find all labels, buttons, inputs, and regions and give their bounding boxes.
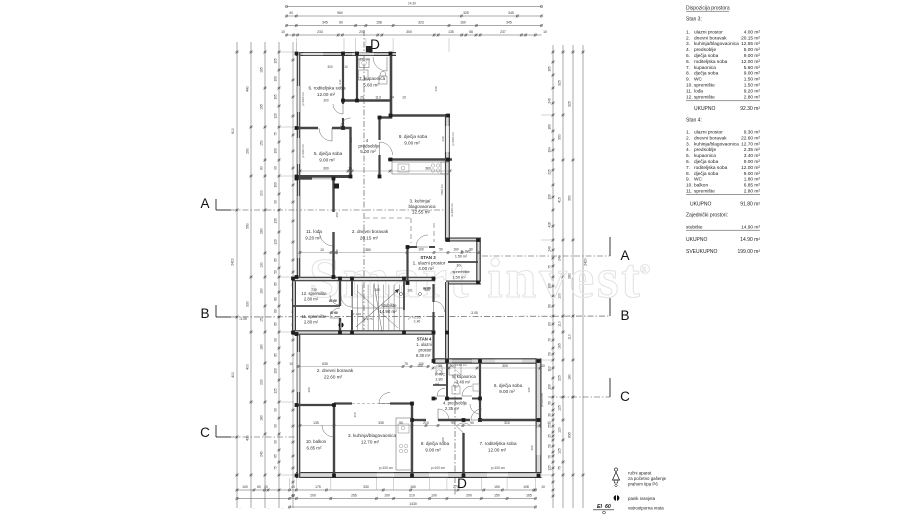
svg-text:1. ulazni: 1. ulazni bbox=[416, 342, 432, 347]
svg-text:310: 310 bbox=[504, 421, 510, 425]
svg-text:8.: 8. bbox=[686, 171, 690, 177]
wall stair left x352 bbox=[351, 279, 353, 296]
svg-text:120: 120 bbox=[274, 113, 278, 119]
svg-text:30: 30 bbox=[438, 364, 442, 368]
svg-text:165: 165 bbox=[548, 66, 552, 72]
svg-text:2. dnevni boravak: 2. dnevni boravak bbox=[317, 368, 354, 373]
svg-text:kuhinja/blagovaonica: kuhinja/blagovaonica bbox=[694, 141, 739, 147]
wall entry block top bbox=[446, 238, 481, 242]
svg-text:spremište: spremište bbox=[452, 269, 470, 274]
section line D vertical upper bbox=[363, 52, 365, 330]
wall WC bottom bbox=[433, 384, 447, 386]
svg-text:610: 610 bbox=[338, 79, 342, 84]
svg-text:12.55 m²: 12.55 m² bbox=[412, 210, 431, 215]
svg-text:75: 75 bbox=[404, 362, 408, 366]
svg-text:± 1.40: ± 1.40 bbox=[353, 312, 362, 316]
svg-text:100: 100 bbox=[417, 364, 423, 368]
svg-text:1.50 m²: 1.50 m² bbox=[744, 83, 761, 89]
wall lodja top bbox=[296, 177, 312, 179]
svg-text:2.80 m²: 2.80 m² bbox=[744, 94, 761, 100]
window left wall dnevni boravak lower bbox=[297, 352, 299, 392]
svg-text:1.50 m²: 1.50 m² bbox=[455, 255, 468, 259]
svg-text:440: 440 bbox=[434, 86, 438, 91]
svg-text:dnevni boravak: dnevni boravak bbox=[694, 135, 727, 141]
wall spremiste row top y277 bbox=[292, 277, 435, 282]
svg-text:2.80 m²: 2.80 m² bbox=[304, 297, 319, 302]
svg-text:10: 10 bbox=[281, 30, 285, 34]
svg-text:2420: 2420 bbox=[231, 258, 235, 266]
door arc Stan 4 predsoblje to kupaonica bbox=[462, 386, 472, 396]
svg-text:9. WC: 9. WC bbox=[435, 373, 446, 377]
svg-text:100: 100 bbox=[548, 194, 552, 200]
svg-text:9.00 m²: 9.00 m² bbox=[744, 53, 761, 59]
svg-text:9.00 m²: 9.00 m² bbox=[404, 141, 420, 146]
svg-text:R: R bbox=[642, 266, 647, 274]
legend Stan 3 underline bbox=[686, 100, 760, 102]
svg-text:p=100 cm: p=100 cm bbox=[431, 466, 445, 470]
kupaonica Stan 4 sink bbox=[473, 384, 480, 391]
fridge Stan 3 bbox=[441, 162, 449, 174]
svg-text:4.: 4. bbox=[686, 47, 690, 53]
section line A inside bbox=[296, 209, 448, 211]
WC toilet Stan 4 bbox=[436, 366, 442, 374]
svg-text:4. predsoblje: 4. predsoblje bbox=[443, 401, 468, 406]
dimension chain right vertical lines bbox=[552, 45, 554, 508]
svg-text:5. dječja soba: 5. dječja soba bbox=[314, 151, 343, 156]
door arc corridor B bbox=[434, 301, 445, 312]
svg-text:90: 90 bbox=[274, 408, 278, 412]
svg-text:418: 418 bbox=[548, 222, 552, 228]
svg-text:2.: 2. bbox=[686, 135, 690, 141]
svg-text:60: 60 bbox=[257, 485, 261, 489]
svg-text:vatrootporna vrata: vatrootporna vrata bbox=[628, 506, 664, 511]
svg-text:11. spremište: 11. spremište bbox=[302, 314, 327, 319]
svg-text:180: 180 bbox=[260, 415, 264, 421]
door opening rooms 6-5 wall bbox=[318, 126, 332, 129]
svg-text:90: 90 bbox=[274, 440, 278, 444]
svg-text:10.: 10. bbox=[456, 264, 461, 268]
svg-text:-3.05: -3.05 bbox=[470, 311, 478, 315]
svg-text:265: 265 bbox=[351, 494, 357, 498]
svg-text:9.20 m²: 9.20 m² bbox=[305, 236, 321, 241]
svg-text:240: 240 bbox=[548, 98, 552, 104]
svg-text:345: 345 bbox=[508, 11, 514, 15]
svg-text:ulazni prostor: ulazni prostor bbox=[694, 29, 723, 35]
svg-text:2.: 2. bbox=[686, 35, 690, 41]
toilet kupaonica Stan 3 bbox=[379, 76, 387, 84]
svg-text:EI 60: EI 60 bbox=[329, 299, 337, 303]
svg-text:3.: 3. bbox=[686, 41, 690, 47]
svg-text:24: 24 bbox=[390, 96, 394, 100]
svg-text:-3.05: -3.05 bbox=[239, 317, 247, 321]
wall kitchen right x412 lower bbox=[411, 403, 413, 477]
section line A left bbox=[231, 209, 296, 211]
svg-text:12.00 m²: 12.00 m² bbox=[741, 165, 760, 171]
dashed line entry boundary bbox=[433, 223, 435, 242]
wall spremiste row left bbox=[292, 277, 296, 334]
svg-text:1.: 1. bbox=[686, 29, 690, 35]
svg-text:EI: EI bbox=[597, 504, 602, 510]
svg-text:40: 40 bbox=[289, 11, 293, 15]
svg-text:14.30: 14.30 bbox=[408, 2, 416, 6]
staircase second diagonal bbox=[357, 291, 398, 328]
svg-text:165: 165 bbox=[526, 494, 532, 498]
dimension chain top row total bbox=[287, 6, 542, 8]
wall right of room 8 / kitchen (outer) bbox=[445, 114, 450, 242]
svg-text:1.: 1. bbox=[686, 130, 690, 136]
wall lodja right x333.5 bbox=[332, 178, 334, 212]
svg-text:113: 113 bbox=[375, 96, 381, 100]
svg-text:100: 100 bbox=[424, 288, 430, 292]
svg-text:6.: 6. bbox=[686, 159, 690, 165]
svg-text:+2.05: +2.05 bbox=[412, 316, 421, 320]
svg-text:12.00 m²: 12.00 m² bbox=[317, 92, 336, 97]
window kupaonica top inner bbox=[359, 52, 369, 54]
svg-text:345: 345 bbox=[506, 21, 512, 25]
wall column blobs bbox=[295, 52, 299, 56]
svg-text:1=2.75: 1=2.75 bbox=[363, 317, 373, 321]
svg-text:8.: 8. bbox=[686, 71, 690, 77]
svg-text:60: 60 bbox=[274, 309, 278, 313]
window left wall roditeljska soba bbox=[297, 86, 299, 112]
svg-text:22.60 m²: 22.60 m² bbox=[324, 375, 343, 380]
svg-text:kupaonica: kupaonica bbox=[694, 153, 716, 159]
svg-text:dječja soba: dječja soba bbox=[694, 159, 719, 165]
extension lines from top wall to top chain bbox=[295, 38, 297, 52]
svg-text:180: 180 bbox=[335, 249, 339, 254]
svg-text:WC: WC bbox=[694, 177, 703, 183]
svg-text:300: 300 bbox=[502, 364, 508, 368]
svg-text:130: 130 bbox=[260, 262, 264, 268]
svg-text:6. dječja soba: 6. dječja soba bbox=[494, 383, 523, 388]
wall kupaonica lower right x480 bbox=[479, 362, 481, 420]
svg-text:6.85 m²: 6.85 m² bbox=[307, 446, 322, 451]
svg-text:-1.40: -1.40 bbox=[413, 320, 420, 324]
left chain connectors to wall bbox=[279, 51, 294, 53]
svg-text:150: 150 bbox=[260, 140, 264, 146]
svg-text:A: A bbox=[200, 196, 209, 211]
svg-text:B: B bbox=[200, 306, 209, 321]
svg-text:10: 10 bbox=[547, 421, 551, 425]
svg-text:233: 233 bbox=[317, 30, 323, 34]
wall predsoblje top y398 lower bbox=[433, 398, 437, 400]
wall entry block bottom bbox=[446, 281, 481, 285]
svg-text:3.40 m²: 3.40 m² bbox=[456, 380, 471, 385]
svg-text:4.00 m²: 4.00 m² bbox=[418, 266, 434, 271]
window right wall room 8 p=100 bbox=[446, 126, 449, 152]
svg-text:75: 75 bbox=[274, 132, 278, 136]
svg-text:125: 125 bbox=[558, 448, 562, 454]
svg-text:7.: 7. bbox=[686, 165, 690, 171]
dimension chain top row 3 bbox=[287, 25, 542, 27]
window bottom room 7 p=100 bbox=[487, 473, 508, 477]
wall outer bottom bbox=[296, 472, 542, 478]
svg-text:75: 75 bbox=[274, 466, 278, 470]
svg-text:9.00 m²: 9.00 m² bbox=[319, 158, 335, 163]
cabinet kupaonica Stan 3 bbox=[359, 59, 369, 68]
wall outer right (Stan 4) bbox=[536, 359, 542, 479]
legend symbol panik lamp bbox=[614, 495, 620, 501]
svg-text:dnevni boravak: dnevni boravak bbox=[694, 35, 727, 41]
svg-text:120: 120 bbox=[274, 239, 278, 245]
svg-text:1.50 m²: 1.50 m² bbox=[744, 77, 761, 83]
wall entry Stan3 left x407.5 bbox=[406, 247, 408, 283]
svg-text:50: 50 bbox=[548, 444, 552, 448]
wall entry block right bbox=[476, 238, 481, 284]
wall corridor right x447 bbox=[445, 282, 449, 363]
svg-text:2.80 m²: 2.80 m² bbox=[304, 320, 319, 325]
svg-text:90: 90 bbox=[469, 248, 473, 252]
svg-text:100: 100 bbox=[274, 368, 278, 374]
window left wall lodja bbox=[297, 196, 299, 258]
wall divider rooms 8 and 7 lower bbox=[462, 433, 464, 477]
section line C left bbox=[231, 436, 296, 438]
svg-text:7. roditeljska soba: 7. roditeljska soba bbox=[479, 441, 516, 446]
door arc Stan 4 room 8 bbox=[438, 409, 449, 420]
section D flag mark bbox=[366, 46, 373, 53]
svg-text:blagovaonica: blagovaonica bbox=[408, 204, 436, 209]
section marker B right bbox=[609, 298, 611, 316]
svg-text:5.60 m²: 5.60 m² bbox=[363, 83, 379, 88]
svg-text:11.: 11. bbox=[686, 88, 692, 94]
svg-text:29: 29 bbox=[360, 96, 364, 100]
svg-text:6. roditeljska soba: 6. roditeljska soba bbox=[308, 86, 345, 91]
door arc Stan 4 room 6 bbox=[470, 404, 480, 414]
svg-text:prostor: prostor bbox=[418, 348, 432, 353]
svg-text:8. dječja soba: 8. dječja soba bbox=[399, 134, 428, 139]
right chain extra fine ticks bbox=[552, 61, 554, 63]
left chain ticks line 3 bbox=[264, 51, 266, 53]
svg-text:240: 240 bbox=[260, 451, 264, 457]
svg-text:ulazni prostor: ulazni prostor bbox=[694, 130, 723, 136]
svg-text:roditeljska soba: roditeljska soba bbox=[694, 59, 728, 65]
svg-text:300: 300 bbox=[307, 387, 311, 392]
wall spremiste right x340 bbox=[339, 279, 341, 306]
svg-text:180: 180 bbox=[568, 374, 572, 380]
svg-text:B: B bbox=[620, 308, 629, 323]
svg-text:160: 160 bbox=[548, 124, 552, 130]
section marker A right bbox=[609, 237, 611, 256]
window right wing top wall bbox=[495, 359, 522, 363]
svg-text:90: 90 bbox=[274, 424, 278, 428]
svg-text:11.: 11. bbox=[686, 189, 692, 195]
svg-text:300: 300 bbox=[530, 445, 534, 450]
door arc spremiste 11 bbox=[330, 308, 340, 318]
door arc entry Stan 3 bbox=[416, 235, 428, 247]
wall dnevni/kuhinja divider lower bbox=[334, 402, 352, 404]
svg-text:1.50 m²: 1.50 m² bbox=[452, 275, 466, 280]
svg-text:p=100 cm: p=100 cm bbox=[301, 144, 305, 158]
svg-text:10.: 10. bbox=[686, 183, 693, 189]
svg-text:predsoblje: predsoblje bbox=[358, 144, 380, 149]
wall interior x343 upper bbox=[342, 52, 344, 104]
svg-text:225: 225 bbox=[558, 375, 562, 381]
wall between spremiste 12 and 11 bbox=[293, 305, 340, 307]
svg-text:5.: 5. bbox=[686, 153, 690, 159]
dimension chain bottom row 2 bbox=[237, 498, 536, 500]
door arc lodja bbox=[320, 232, 334, 246]
kitchen sink Stan 3 bbox=[398, 164, 409, 172]
svg-text:10: 10 bbox=[289, 362, 293, 366]
svg-text:100: 100 bbox=[418, 248, 424, 252]
section marker C right bbox=[609, 378, 611, 397]
dimension chain bottom row 3 total 1430 bbox=[290, 506, 536, 508]
svg-text:za početno gašenje: za početno gašenje bbox=[628, 476, 667, 481]
svg-text:p=100 cm: p=100 cm bbox=[491, 466, 505, 470]
svg-text:4.00 m²: 4.00 m² bbox=[744, 29, 761, 35]
svg-text:10: 10 bbox=[348, 167, 352, 171]
svg-text:8. dječja soba: 8. dječja soba bbox=[421, 441, 450, 446]
svg-text:2.35 m²: 2.35 m² bbox=[445, 406, 460, 411]
svg-text:STAN 3: STAN 3 bbox=[420, 255, 436, 260]
svg-text:22.60 m²: 22.60 m² bbox=[741, 135, 760, 141]
kitchen sink Stan 4 bbox=[398, 424, 409, 433]
extension lines from bottom wall to bottom chain bbox=[289, 478, 291, 490]
svg-text:58: 58 bbox=[469, 30, 473, 34]
left chain ticks line 2 bbox=[250, 51, 252, 53]
svg-text:6.: 6. bbox=[686, 59, 690, 65]
window top wall kupaonica Stan 4 bbox=[452, 360, 472, 362]
svg-text:20.15 m²: 20.15 m² bbox=[360, 236, 379, 241]
svg-text:125: 125 bbox=[558, 405, 562, 411]
svg-text:210: 210 bbox=[353, 412, 357, 417]
svg-text:240: 240 bbox=[441, 136, 445, 141]
staircase break line bbox=[374, 283, 382, 332]
wall kupaonica right bbox=[390, 52, 393, 119]
left chain bottom extension bbox=[239, 508, 241, 509]
svg-text:Stan 4:: Stan 4: bbox=[686, 118, 702, 124]
legend Stan 4 underline bbox=[686, 194, 760, 196]
svg-text:12.00 m²: 12.00 m² bbox=[741, 59, 760, 65]
panik lamp symbol in corridor bbox=[338, 322, 343, 327]
svg-text:90: 90 bbox=[274, 200, 278, 204]
wall jog kupaonica to room 8 bbox=[379, 116, 392, 118]
wall corridor left x433.5 bbox=[432, 284, 434, 302]
svg-text:prahom tipa P6: prahom tipa P6 bbox=[628, 482, 658, 487]
svg-text:199.00 m²: 199.00 m² bbox=[737, 249, 760, 255]
svg-text:590: 590 bbox=[246, 223, 250, 229]
svg-text:70: 70 bbox=[548, 455, 552, 459]
svg-text:6.85 m²: 6.85 m² bbox=[744, 183, 761, 189]
svg-text:350: 350 bbox=[568, 195, 572, 201]
svg-text:panik rasvjeta: panik rasvjeta bbox=[628, 496, 656, 501]
wall balcony top bbox=[298, 404, 334, 406]
interior dim row lower y425 bbox=[300, 425, 540, 427]
svg-text:130: 130 bbox=[274, 218, 278, 224]
dashed opening dnevni to kuhinja Stan 4 bbox=[352, 403, 390, 405]
svg-text:125: 125 bbox=[274, 388, 278, 394]
svg-text:125: 125 bbox=[548, 465, 552, 471]
svg-text:108: 108 bbox=[523, 485, 529, 489]
svg-text:210: 210 bbox=[349, 137, 353, 142]
svg-text:20.15 m²: 20.15 m² bbox=[741, 35, 760, 41]
wall predsoblje right x379.5 bbox=[378, 117, 380, 140]
kupaonica Stan 4 toilet bbox=[452, 386, 460, 394]
wall WC right x447 lower bbox=[446, 362, 448, 398]
svg-text:spremište: spremište bbox=[694, 94, 715, 100]
svg-text:1.80 m²: 1.80 m² bbox=[744, 177, 761, 183]
svg-text:ručni aparat: ručni aparat bbox=[628, 471, 652, 476]
svg-text:160: 160 bbox=[260, 288, 264, 294]
svg-text:SVEUKUPNO: SVEUKUPNO bbox=[686, 249, 718, 255]
svg-text:1430: 1430 bbox=[409, 502, 417, 506]
svg-text:12.00 m²: 12.00 m² bbox=[488, 448, 507, 453]
svg-text:90: 90 bbox=[399, 421, 403, 425]
svg-text:12.70 m²: 12.70 m² bbox=[741, 141, 760, 147]
dimension chain top row 2 bbox=[287, 15, 542, 17]
svg-text:14.90 m²: 14.90 m² bbox=[379, 309, 397, 314]
svg-text:roditeljska soba: roditeljska soba bbox=[694, 165, 728, 171]
svg-text:10. balkon: 10. balkon bbox=[306, 439, 327, 444]
svg-text:101: 101 bbox=[407, 289, 413, 293]
wall outer left upper (Stan 3) bbox=[297, 52, 301, 277]
svg-text:30: 30 bbox=[548, 413, 552, 417]
door arc stairs bbox=[341, 296, 352, 307]
svg-text:237: 237 bbox=[500, 30, 506, 34]
wall interior x350.5 predsoblje left bbox=[349, 127, 351, 178]
svg-text:WC: WC bbox=[694, 77, 703, 83]
svg-text:960: 960 bbox=[337, 11, 343, 15]
svg-text:110: 110 bbox=[568, 334, 572, 340]
staircase mid landing line bbox=[352, 307, 404, 309]
door arc Stan 4 kitchen bbox=[379, 393, 390, 404]
svg-text:165: 165 bbox=[527, 387, 531, 392]
left chain extra fine ticks bbox=[292, 59, 294, 61]
svg-text:90: 90 bbox=[450, 364, 454, 368]
svg-text:20: 20 bbox=[264, 485, 268, 489]
svg-text:100: 100 bbox=[274, 148, 278, 154]
svg-text:50: 50 bbox=[274, 270, 278, 274]
right chain ticks mid bbox=[562, 51, 564, 53]
window top wall kupaonica p=130 bbox=[352, 53, 374, 55]
svg-text:75: 75 bbox=[558, 466, 562, 470]
svg-text:9.00 m²: 9.00 m² bbox=[744, 159, 761, 165]
svg-text:p=100 cm: p=100 cm bbox=[379, 466, 393, 470]
svg-text:120: 120 bbox=[558, 427, 562, 433]
svg-text:180: 180 bbox=[260, 344, 264, 350]
svg-text:lođa: lođa bbox=[694, 88, 703, 94]
svg-text:predsoblje: predsoblje bbox=[694, 147, 716, 153]
svg-text:9.: 9. bbox=[686, 177, 690, 183]
section line C right bbox=[548, 396, 610, 398]
svg-text:UKUPNO: UKUPNO bbox=[690, 202, 712, 208]
svg-text:695: 695 bbox=[568, 432, 572, 438]
left chain ticks line 4 fine bbox=[278, 51, 280, 53]
svg-text:stubište: stubište bbox=[381, 303, 397, 308]
svg-text:C: C bbox=[620, 389, 630, 404]
svg-text:5.60 m²: 5.60 m² bbox=[744, 65, 761, 71]
svg-text:100: 100 bbox=[242, 485, 248, 489]
svg-text:100: 100 bbox=[274, 182, 278, 188]
svg-text:280: 280 bbox=[260, 228, 264, 234]
svg-text:3. kuhinja/blagovaonica: 3. kuhinja/blagovaonica bbox=[348, 433, 396, 438]
svg-text:110: 110 bbox=[558, 321, 562, 327]
svg-text:10: 10 bbox=[543, 30, 547, 34]
svg-text:323: 323 bbox=[418, 21, 424, 25]
svg-text:10: 10 bbox=[541, 364, 545, 368]
svg-text:430: 430 bbox=[246, 435, 250, 441]
svg-text:10: 10 bbox=[402, 96, 406, 100]
svg-text:325: 325 bbox=[463, 11, 469, 15]
wall right wing top bbox=[433, 358, 541, 364]
svg-text:kuhinja/blagovaonica: kuhinja/blagovaonica bbox=[694, 41, 739, 47]
svg-text:12.55 m²: 12.55 m² bbox=[741, 41, 760, 47]
window bottom room 8 p=200 bbox=[429, 473, 448, 477]
svg-text:p=100 cm: p=100 cm bbox=[301, 92, 305, 106]
svg-text:2.80 m²: 2.80 m² bbox=[744, 189, 761, 195]
svg-text:350: 350 bbox=[558, 134, 562, 140]
svg-text:a=100 cm: a=100 cm bbox=[450, 203, 454, 217]
